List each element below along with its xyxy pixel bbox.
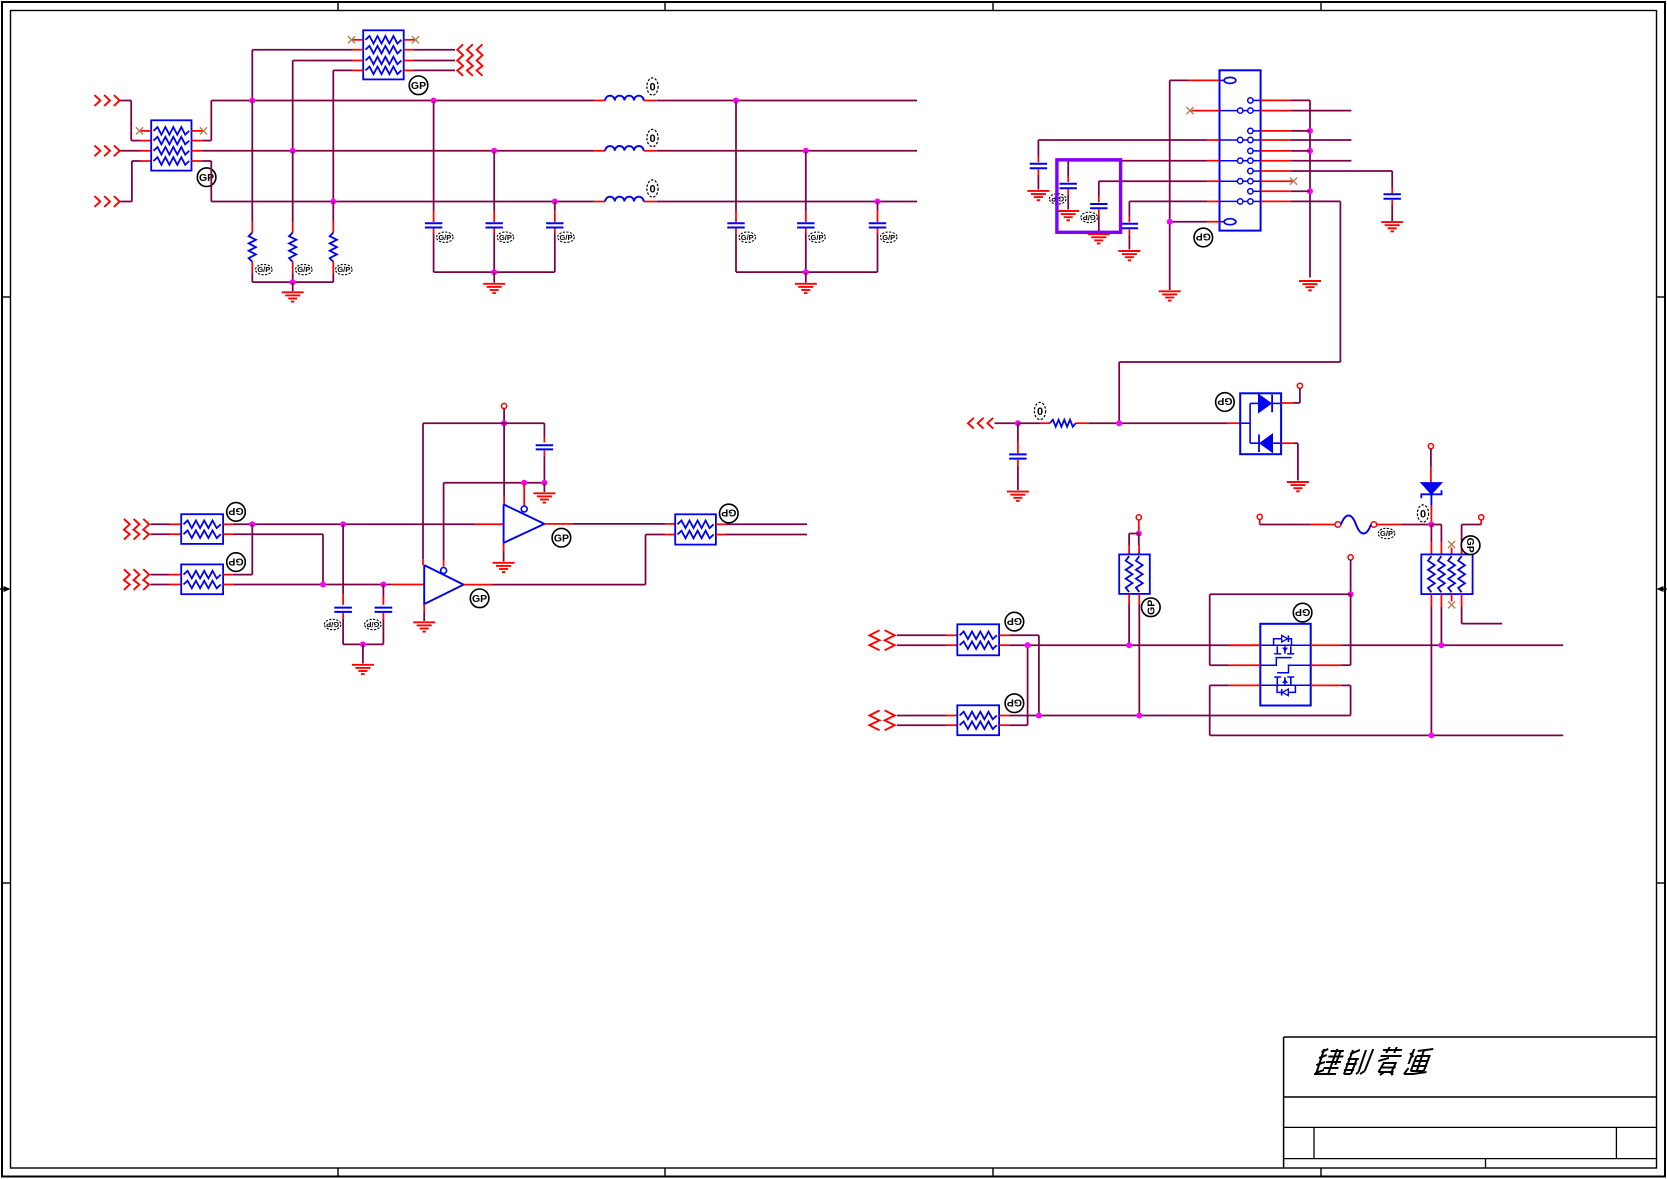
RP10 label GP bbox=[720, 504, 739, 523]
diode pack D1 bbox=[1240, 393, 1281, 454]
svg-text:GP: GP bbox=[228, 555, 243, 567]
RP7 pin2 down bbox=[1138, 594, 1140, 716]
wire C7 to gnd bbox=[1391, 200, 1393, 221]
junction C6 bus bbox=[875, 199, 881, 205]
junction C3 bus bbox=[552, 199, 558, 205]
shield box (violet) bbox=[1057, 160, 1121, 233]
wire R1 to gnd bus bbox=[251, 262, 253, 282]
ground (C8) bbox=[1027, 191, 1049, 200]
wire cap trio2 gnd bus bbox=[736, 271, 878, 273]
port P6 bbox=[1348, 555, 1353, 560]
fuse F1 bbox=[1335, 516, 1377, 534]
wire C9 to gnd bbox=[1067, 189, 1069, 209]
junction C1 bus bbox=[431, 98, 437, 104]
wire P6 down bbox=[1350, 560, 1352, 594]
G/P label C4 bbox=[739, 232, 756, 242]
wire node to RP4 pin1 bbox=[1430, 525, 1432, 555]
resistor pack RP2 bbox=[363, 30, 404, 79]
wire J4 pin r1 bbox=[1261, 100, 1310, 277]
J4 label GP bbox=[1194, 228, 1213, 247]
C15 label G/P bbox=[365, 619, 382, 629]
wire R3 from bus bbox=[332, 202, 334, 233]
svg-text:GP: GP bbox=[1146, 600, 1158, 615]
G/P label R2 bbox=[296, 264, 313, 274]
wire C8 to gnd bbox=[1037, 169, 1039, 189]
RP1 row4 output stub bbox=[192, 160, 203, 162]
capacitor C9 (in shield box) bbox=[1060, 184, 1077, 188]
connector J1 input chevrons phase A bbox=[95, 95, 120, 106]
svg-text:G/P: G/P bbox=[811, 233, 824, 242]
resistor pack RP10 bbox=[675, 514, 716, 544]
wire RP6 row1 out (bus 715) bbox=[999, 715, 1351, 717]
inductor L3 bbox=[605, 197, 643, 202]
junction RP7p2/bus715 bbox=[1136, 713, 1142, 719]
resistor pack RP5 bbox=[957, 624, 999, 655]
wire RP5 row1 out bbox=[999, 635, 1039, 715]
RP2 label GP bbox=[409, 76, 428, 95]
D1 label GP bbox=[1216, 393, 1235, 412]
svg-text:G/P: G/P bbox=[741, 233, 754, 242]
wire C13 to gnd bbox=[1017, 460, 1019, 490]
resistor R4 bbox=[1050, 420, 1076, 427]
wire phase B bus bbox=[202, 150, 917, 152]
capacitor C1 bbox=[425, 223, 442, 227]
junction r5 bbox=[1307, 148, 1313, 154]
RP4 pin2 down bbox=[1440, 594, 1442, 645]
capacitor C15 bbox=[375, 608, 393, 612]
ground (C9) bbox=[1057, 211, 1079, 220]
capacitor C5 bbox=[797, 223, 814, 227]
wire C2 from bus bbox=[493, 151, 495, 222]
wire C15 from row2 bbox=[382, 585, 384, 605]
capacitor C14 bbox=[334, 608, 352, 612]
junction C5 bus bbox=[803, 148, 809, 154]
svg-text:0: 0 bbox=[1420, 508, 1426, 520]
wire to U2 bubble bbox=[443, 483, 445, 567]
junction cap trio1 gnd bbox=[491, 269, 497, 275]
junction r9 bbox=[1307, 188, 1313, 194]
wire J4 pin r4 bbox=[1261, 139, 1352, 141]
port P1 (diode top) bbox=[1297, 383, 1302, 388]
wire P6 node to Q1 left gate bbox=[1210, 594, 1351, 665]
wire RP6 row2 out bbox=[999, 645, 1028, 725]
RP6 label GP bbox=[1005, 694, 1024, 713]
RP9 label GP bbox=[227, 553, 246, 572]
svg-text:GP: GP bbox=[1464, 538, 1476, 553]
wire C5 from bus bbox=[805, 151, 807, 222]
junction C4 bus bbox=[733, 98, 739, 104]
wire C6 below bbox=[877, 229, 879, 273]
svg-text:0: 0 bbox=[649, 81, 655, 93]
wires group D to RP9 bbox=[151, 575, 182, 585]
resistor pack RP6 bbox=[957, 705, 999, 735]
wire node to RP7 pin1 bbox=[1129, 534, 1139, 555]
resistor R4 stubs bbox=[1018, 422, 1089, 424]
MOSFET pack Q1 bbox=[1260, 624, 1310, 706]
connector J2 input chevrons phase B bbox=[95, 145, 120, 156]
wire J4 pin r3 bbox=[1261, 130, 1310, 132]
wire RP2 row3 to phase B bbox=[293, 61, 364, 151]
connector chevrons (1-wire, left-pointing) bbox=[968, 418, 993, 429]
wire supply to C16 bbox=[543, 423, 545, 442]
junction bus2/RP4 pin1 bbox=[1428, 732, 1434, 738]
G/P label C6 bbox=[880, 232, 897, 242]
wire gnd stem trio1 bbox=[493, 272, 495, 283]
title text (company name glyphs) bbox=[1314, 1047, 1433, 1075]
svg-text:0: 0 bbox=[1037, 406, 1043, 418]
ground (C10) bbox=[1088, 234, 1110, 243]
svg-text:G/P: G/P bbox=[1083, 213, 1096, 222]
wire U1 gnd bbox=[503, 543, 505, 562]
wire bus1 (gate row) bbox=[1341, 644, 1563, 646]
RP4 pin3 no-connect bottom bbox=[1448, 594, 1455, 608]
Q1 label GP bbox=[1293, 603, 1312, 622]
junction oval pin2 bbox=[1167, 219, 1173, 225]
capacitor C10 (in shield box) bbox=[1090, 204, 1107, 208]
RP2 pin1 stubs and no-connects bbox=[348, 36, 419, 43]
capacitor C16 bbox=[536, 445, 553, 449]
wire J4 pin r9 bbox=[1261, 190, 1310, 192]
wire J4 pin r6 bbox=[1261, 160, 1352, 162]
svg-text:G/P: G/P bbox=[499, 233, 512, 242]
wire gnd stem (bubble rail) bbox=[543, 483, 545, 492]
wire node to RP7 pin2 bbox=[1138, 534, 1140, 555]
wire C4 from bus bbox=[735, 101, 737, 223]
capacitor C2 bbox=[486, 223, 503, 227]
junction phase C / RP2 bbox=[330, 199, 336, 205]
junction bubble rail/U1 bbox=[521, 480, 527, 486]
resistor R3 bbox=[330, 233, 337, 262]
wire C14 from row1 bbox=[342, 524, 344, 605]
RP1 pin1 stubs and no-connects bbox=[136, 127, 207, 134]
capacitor C11 bbox=[1121, 224, 1138, 228]
ground (resistor trio) bbox=[282, 292, 304, 301]
wire node to RP4 pin2 bbox=[1431, 525, 1441, 555]
op-amp U1 bbox=[504, 504, 545, 543]
wire J4 pin r7 bbox=[1261, 171, 1393, 193]
RP8 label GP bbox=[227, 503, 246, 522]
wire supply rail bbox=[423, 422, 544, 424]
wire C1 from bus bbox=[433, 101, 435, 223]
svg-text:0: 0 bbox=[649, 133, 655, 145]
junction C2 bus bbox=[491, 148, 497, 154]
svg-text:G/P: G/P bbox=[326, 620, 339, 629]
wire C6 from bus bbox=[877, 202, 879, 223]
C14 label G/P bbox=[324, 619, 341, 629]
junction row2/C15 bbox=[380, 582, 386, 588]
junction RP6r2/bus645 bbox=[1025, 642, 1031, 648]
wire P3 to zener bbox=[1430, 449, 1432, 483]
G/P label C2 bbox=[497, 232, 514, 242]
wire J4 pin l4 to C8 bbox=[1038, 140, 1219, 162]
G/P label R1 bbox=[255, 264, 272, 274]
junction RP7p1/bus645 bbox=[1126, 642, 1132, 648]
wire zener to junction bbox=[1430, 494, 1432, 521]
C9 label G/P bbox=[1049, 194, 1066, 204]
wire RP9 row2 to op-amp U2 bbox=[223, 584, 424, 586]
wire RP5 row2 out (bus 645) bbox=[999, 644, 1260, 646]
svg-text:G/P: G/P bbox=[297, 265, 310, 274]
connector chevrons pair B (2-wire) bbox=[869, 710, 894, 730]
wire P5 to RP7 bbox=[1138, 520, 1140, 534]
wire U1 output bbox=[544, 523, 675, 525]
ground (cap trio1) bbox=[483, 284, 505, 293]
wire P1 to D1 bbox=[1281, 388, 1300, 403]
connector output chevrons (3-wire) bbox=[457, 44, 482, 76]
junction row1/RP9r1 bbox=[249, 521, 255, 527]
wire J4 pin r10 bbox=[1119, 201, 1340, 423]
D2 label bbox=[1417, 505, 1428, 522]
wire RP2 row4 to phase C bbox=[333, 70, 363, 201]
wire bubble rail bbox=[444, 482, 545, 484]
wire RP10 outputs bbox=[716, 524, 807, 534]
wire J4 oval pin2 bbox=[1170, 221, 1220, 223]
junction P5 node bbox=[1136, 531, 1142, 537]
wire C3 below bbox=[554, 229, 556, 273]
wire cap trio1 gnd bus bbox=[434, 271, 555, 273]
wire RP8 row2 down bbox=[223, 534, 323, 584]
svg-text:G/P: G/P bbox=[1380, 529, 1393, 538]
junction phase B / RP2 bbox=[290, 148, 296, 154]
zener D2 bbox=[1421, 483, 1441, 499]
wire C10 to gnd bbox=[1098, 210, 1100, 234]
resistor R1 bbox=[249, 233, 256, 262]
inductor L3 label bbox=[647, 180, 658, 197]
junction row1/C14 bbox=[340, 521, 346, 527]
RP4 pin4 down bbox=[1462, 594, 1503, 624]
inductor L1 bbox=[605, 96, 643, 101]
frame right center arrow bbox=[1657, 586, 1667, 592]
port P3 (zener top) bbox=[1428, 444, 1433, 449]
junction bubble rail/C16 bbox=[541, 480, 547, 486]
RP4 label GP bbox=[1461, 536, 1480, 555]
RP5 label GP bbox=[1005, 612, 1024, 631]
RP2 output stubs bbox=[404, 50, 414, 71]
wire C16 down bbox=[543, 451, 545, 483]
wire J4 oval pin1 bbox=[1170, 80, 1220, 290]
wire bus2 (source row) bbox=[1210, 734, 1564, 736]
wire J2-B to RP1 pin3 bbox=[121, 150, 152, 152]
svg-text:GP: GP bbox=[1007, 696, 1022, 708]
wire phase A bus bbox=[202, 101, 917, 141]
wire gnd stem trio2 bbox=[805, 272, 807, 283]
junction RP5r1/bus715 bbox=[1036, 713, 1042, 719]
wire P4 to RP4 pin4 bbox=[1462, 520, 1482, 555]
wire C11 to gnd bbox=[1128, 229, 1130, 249]
wire caps gnd stem bbox=[362, 644, 364, 663]
port P4 bbox=[1479, 515, 1484, 520]
wire J4 pin r2 bbox=[1261, 110, 1352, 112]
wire chevron to junction bbox=[995, 422, 1018, 424]
wire RP9 row1 up bbox=[223, 524, 252, 574]
resistor pack RP4 bbox=[1421, 554, 1472, 594]
ground (C7) bbox=[1381, 222, 1403, 231]
ground (C11) bbox=[1118, 251, 1140, 260]
wire Q1 right pin3 to bus715 bbox=[1341, 685, 1351, 715]
svg-text:GP: GP bbox=[1196, 231, 1211, 243]
wire C4 below bbox=[735, 229, 737, 273]
connector J3 input chevrons phase C bbox=[95, 196, 120, 207]
junction diode row bbox=[1116, 420, 1122, 426]
RP7 pin1 down bbox=[1128, 594, 1130, 645]
connector chevrons group D (2-wire) bbox=[124, 569, 149, 590]
C10 label G/P bbox=[1081, 212, 1098, 222]
wire RP8 row1 to op-amp U1 bbox=[223, 523, 504, 525]
svg-text:GP: GP bbox=[1007, 615, 1022, 627]
G/P label R3 bbox=[336, 264, 353, 274]
U1 label GP bbox=[552, 528, 571, 547]
wire J4 pin l10 to C11 bbox=[1129, 201, 1219, 222]
wire J1-A to RP1 pin2 bbox=[121, 101, 152, 141]
junction cap trio2 gnd bbox=[803, 269, 809, 275]
junction resistor gnd bus bbox=[290, 279, 296, 285]
ground (x1310 bus) bbox=[1299, 281, 1321, 290]
inductor L2 bbox=[605, 146, 643, 151]
wire J4 pin r8 no-connect bbox=[1261, 178, 1298, 185]
capacitor C13 bbox=[1009, 454, 1026, 458]
capacitor C4 bbox=[727, 223, 744, 227]
wire RP2 outputs to chevrons bbox=[414, 50, 455, 71]
junction bus1/RP4 pin2 bbox=[1438, 642, 1444, 648]
wire R4 to diode pack bbox=[1089, 422, 1241, 424]
inductor L1 label bbox=[647, 78, 658, 95]
wire C3 from bus bbox=[554, 202, 556, 223]
wire fuse to zener node bbox=[1377, 524, 1432, 526]
resistor R2 bbox=[289, 233, 296, 262]
ground (oval pin1) bbox=[1159, 291, 1181, 300]
frame left center arrow bbox=[0, 586, 11, 592]
port P7 (op-amp supply) bbox=[502, 403, 507, 408]
svg-text:G/P: G/P bbox=[257, 265, 270, 274]
RP7 label GP bbox=[1142, 598, 1161, 617]
ground (cap trio2) bbox=[795, 284, 817, 293]
svg-text:G/P: G/P bbox=[366, 620, 379, 629]
capacitor C7 (top right) bbox=[1384, 194, 1401, 198]
wires pair A to RP5 bbox=[897, 635, 957, 645]
wire R3 to gnd bus bbox=[332, 262, 334, 282]
inductor L2 label bbox=[647, 129, 658, 146]
junction zener node bbox=[1428, 522, 1434, 528]
ground (op-amp caps) bbox=[352, 665, 374, 674]
connector J4 bbox=[1220, 70, 1261, 230]
wire to U1 bubble bbox=[523, 483, 525, 506]
wire J4 pin r5 bbox=[1261, 150, 1310, 152]
wire D1 pin2 to gnd bbox=[1281, 443, 1298, 480]
wire C14 down bbox=[343, 613, 363, 645]
svg-text:G/P: G/P bbox=[337, 265, 350, 274]
wire RP2 row2 to phase A bbox=[252, 50, 363, 101]
wires pair B to RP6 bbox=[897, 716, 957, 726]
svg-text:GP: GP bbox=[554, 532, 569, 544]
wire J4 pin l2 no-connect bbox=[1186, 107, 1219, 114]
resistor pack RP8 bbox=[181, 514, 223, 544]
svg-text:G/P: G/P bbox=[438, 233, 451, 242]
wire phase C bus bbox=[202, 161, 917, 202]
wire R2 from bus bbox=[292, 151, 294, 233]
capacitor C8 bbox=[1030, 164, 1047, 168]
G/P label C3 bbox=[558, 232, 575, 242]
svg-text:GP: GP bbox=[472, 593, 487, 605]
ground (U2) bbox=[413, 622, 435, 631]
wire resistor ground bus bbox=[252, 281, 333, 283]
ground (bubble rail) bbox=[533, 493, 555, 502]
R4 label bbox=[1034, 402, 1045, 419]
junction row2/RP8r2 bbox=[320, 582, 326, 588]
svg-text:GP: GP bbox=[1295, 606, 1310, 618]
svg-text:GP: GP bbox=[1217, 395, 1232, 407]
svg-text:0: 0 bbox=[649, 183, 655, 195]
G/P label C1 bbox=[437, 232, 454, 242]
wire gnd stem bbox=[292, 282, 294, 291]
wire Q1 left pin3 to bus735 bbox=[1210, 685, 1230, 735]
junction C13 bbox=[1015, 420, 1021, 426]
ground (D1) bbox=[1287, 482, 1309, 491]
svg-text:GP: GP bbox=[228, 505, 243, 517]
junction phase A / RP2 bbox=[249, 98, 255, 104]
port P5 bbox=[1136, 515, 1141, 520]
junction caps gnd bbox=[360, 641, 366, 647]
wire U2 output bbox=[464, 535, 676, 585]
junction P7 bbox=[501, 420, 507, 426]
svg-text:G/P: G/P bbox=[882, 233, 895, 242]
wire U2 gnd bbox=[423, 604, 425, 621]
Q1 pin stubs bbox=[1229, 645, 1341, 685]
wire J3-C to RP1 pin4 bbox=[121, 161, 152, 202]
ground (U1) bbox=[493, 563, 515, 572]
resistor pack RP9 bbox=[181, 564, 223, 594]
G/P label C5 bbox=[809, 232, 826, 242]
wire P6 node to Q1 right gate bbox=[1341, 594, 1351, 665]
wire C1 below bbox=[433, 229, 435, 273]
connector chevrons group C (2-wire) bbox=[124, 519, 149, 540]
RP1 row3 output stub bbox=[192, 150, 203, 152]
wires group C to RP8 bbox=[151, 524, 182, 534]
wire C13 from junction bbox=[1017, 423, 1019, 453]
RP1 row2 output stub bbox=[192, 140, 203, 142]
wire C2 below bbox=[493, 229, 495, 273]
RP1 label GP bbox=[197, 168, 216, 187]
wire P2 to fuse bbox=[1260, 520, 1335, 525]
connector chevrons pair A (2-wire) bbox=[869, 630, 894, 650]
wire R1 from bus bbox=[251, 101, 253, 233]
junction r3 bbox=[1307, 128, 1313, 134]
wire R2 to gnd bus bbox=[292, 262, 294, 282]
port P2 bbox=[1257, 514, 1262, 519]
title block lines bbox=[1284, 1037, 1657, 1168]
resistor pack RP7 bbox=[1119, 554, 1150, 594]
capacitor C6 bbox=[869, 223, 886, 227]
junction P6 node bbox=[1348, 591, 1354, 597]
resistor pack RP1 bbox=[151, 120, 191, 170]
wire C15 down bbox=[363, 613, 384, 645]
op-amp U2 bbox=[424, 565, 463, 604]
svg-text:GP: GP bbox=[721, 507, 736, 519]
wire P7 down bbox=[503, 409, 505, 424]
wire C5 below bbox=[805, 229, 807, 273]
wire supply to U1 bbox=[503, 423, 505, 504]
RP4 pin1 down bbox=[1430, 594, 1432, 735]
capacitor C3 bbox=[546, 223, 563, 227]
RP4 pin3 no-connect top bbox=[1448, 541, 1455, 555]
F1 label G/P bbox=[1378, 528, 1395, 538]
wire supply to U2 bbox=[422, 423, 424, 565]
wire J4 pin l8 to C10 bbox=[1099, 181, 1220, 202]
ground (C13) bbox=[1007, 492, 1029, 501]
wire J4 pin l6 to C9 bbox=[1068, 161, 1219, 182]
svg-text:G/P: G/P bbox=[560, 233, 573, 242]
svg-text:GP: GP bbox=[411, 80, 426, 92]
U2 label GP bbox=[470, 589, 489, 608]
